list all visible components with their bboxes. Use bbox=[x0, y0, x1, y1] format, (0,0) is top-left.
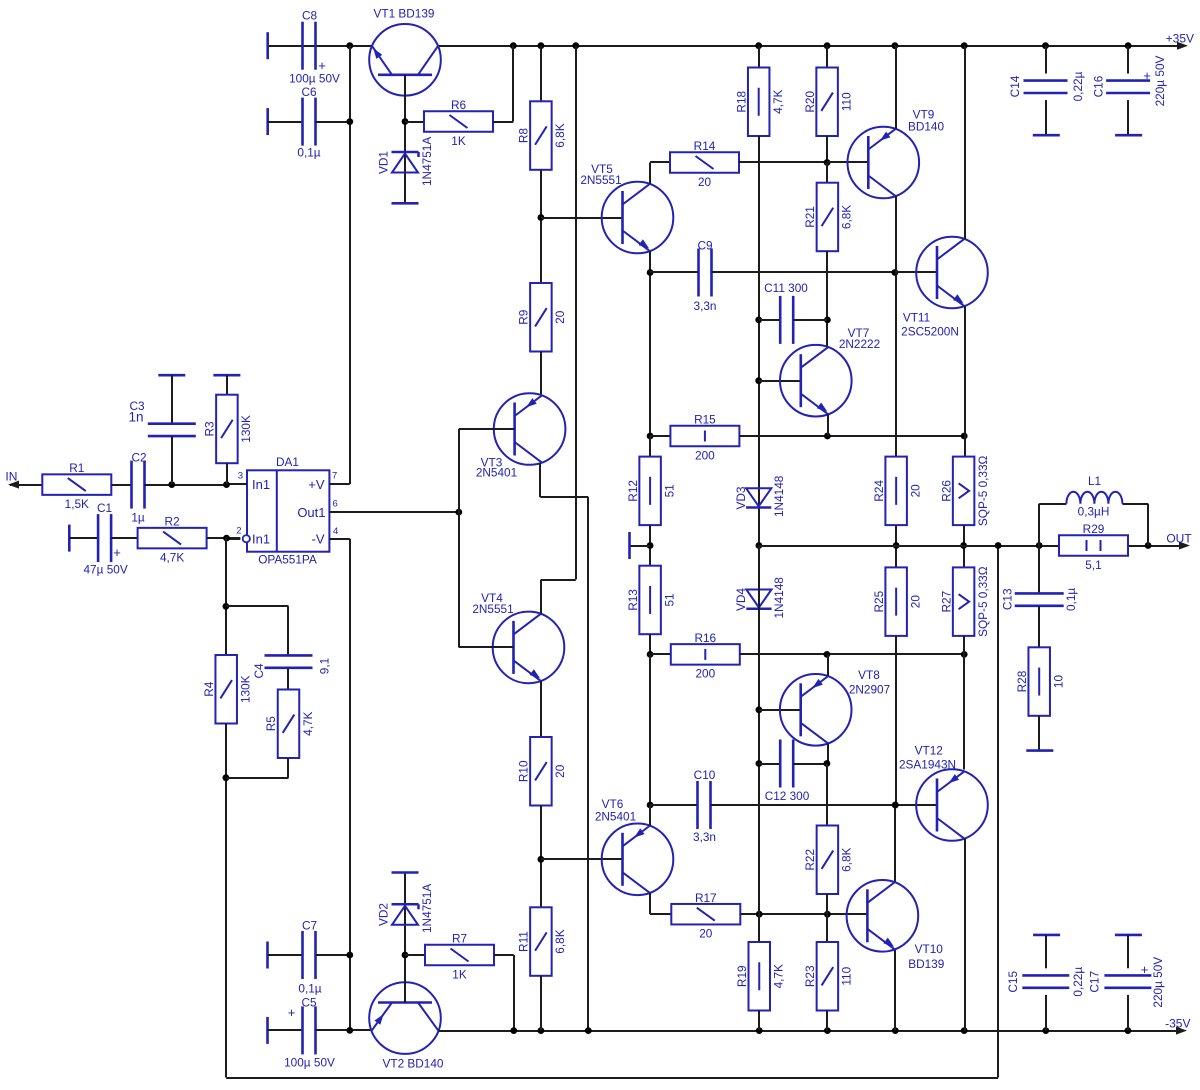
svg-text:R21: R21 bbox=[803, 206, 817, 228]
wire VT9 collector bbox=[895, 196, 897, 456]
svg-text:R5: R5 bbox=[264, 716, 278, 732]
svg-text:R13: R13 bbox=[626, 589, 640, 611]
wire pin6 Out1 bbox=[329, 511, 458, 513]
svg-text:220µ 50V: 220µ 50V bbox=[1153, 55, 1167, 106]
resistor R11 6,8K bbox=[530, 907, 552, 976]
capacitor C5 100u 50V bbox=[266, 1017, 269, 1044]
svg-text:C1: C1 bbox=[97, 501, 112, 515]
junction R14/R20/R21 bbox=[824, 159, 831, 166]
svg-text:6,8K: 6,8K bbox=[553, 123, 567, 147]
junction top rail x895 bbox=[892, 42, 899, 49]
wire R23 bottom bbox=[826, 1011, 828, 1031]
junction VT8 emitter bbox=[824, 651, 831, 658]
svg-text:SQP-5 0,33Ω: SQP-5 0,33Ω bbox=[976, 455, 990, 526]
junction bottom rail x964 bbox=[961, 1027, 968, 1034]
capacitor C6 0,1u bbox=[266, 108, 269, 135]
svg-text:R16: R16 bbox=[694, 631, 716, 645]
junction VT7 base bbox=[755, 377, 762, 384]
svg-text:IN: IN bbox=[5, 469, 17, 483]
resistor R26 SQP-5 0,33 bbox=[953, 457, 975, 525]
wire VT5 collector bbox=[649, 163, 651, 184]
svg-text:C8: C8 bbox=[302, 9, 318, 23]
svg-text:VT12: VT12 bbox=[915, 744, 943, 758]
svg-text:VT1 BD139: VT1 BD139 bbox=[374, 7, 435, 21]
svg-text:C17: C17 bbox=[1088, 971, 1102, 993]
junction VT5 emitter / C9 bbox=[647, 269, 654, 276]
svg-text:20: 20 bbox=[698, 175, 712, 189]
junction top rail x575 bbox=[572, 42, 579, 49]
svg-text:2: 2 bbox=[236, 526, 241, 537]
svg-text:R9: R9 bbox=[517, 310, 531, 325]
wire rail to R18 bbox=[758, 46, 760, 68]
junction R27 bottom bbox=[961, 651, 968, 658]
capacitor C17 220u 50V bbox=[1115, 934, 1142, 937]
svg-text:1N4751A: 1N4751A bbox=[420, 884, 434, 933]
svg-text:0,1µ: 0,1µ bbox=[298, 982, 321, 996]
svg-text:R22: R22 bbox=[803, 849, 817, 871]
svg-text:6,8K: 6,8K bbox=[840, 847, 854, 871]
wire VT11 collector to rail bbox=[964, 46, 966, 239]
junction bottom rail x827 bbox=[824, 1027, 831, 1034]
svg-text:1µ: 1µ bbox=[131, 511, 145, 525]
svg-text:0,1µ: 0,1µ bbox=[1064, 588, 1078, 611]
resistor R21 6,8K bbox=[826, 163, 828, 183]
svg-text:VT10: VT10 bbox=[915, 942, 944, 956]
svg-text:R7: R7 bbox=[452, 932, 467, 946]
svg-text:C10: C10 bbox=[694, 768, 716, 782]
junction C10 right bbox=[892, 802, 899, 809]
wire R18 down bbox=[758, 136, 760, 546]
svg-text:2SC5200N: 2SC5200N bbox=[901, 325, 959, 339]
svg-text:R23: R23 bbox=[803, 965, 817, 987]
svg-text:2N5401: 2N5401 bbox=[595, 810, 636, 824]
svg-text:4,7K: 4,7K bbox=[301, 711, 315, 735]
junction bottom rail x541 bbox=[538, 1027, 545, 1034]
resistor R7 1K bbox=[405, 954, 425, 956]
transistor VT9 BD140 bbox=[827, 161, 868, 163]
transistor VT1 BD139 bbox=[369, 24, 441, 96]
resistor R17 20 bbox=[671, 904, 740, 925]
wire midpoint to ground bbox=[631, 545, 651, 547]
svg-text:1N4751A: 1N4751A bbox=[420, 137, 434, 186]
svg-text:20: 20 bbox=[553, 764, 567, 778]
svg-text:VT11: VT11 bbox=[903, 311, 930, 325]
svg-text:VT2 BD140: VT2 BD140 bbox=[383, 1057, 444, 1071]
wire pin3 bbox=[227, 483, 248, 485]
junction VT7 emitter bbox=[824, 433, 831, 440]
capacitor C10 3,3n bbox=[650, 804, 697, 806]
capacitor C2 1u bbox=[130, 461, 133, 509]
svg-text:0,22µ: 0,22µ bbox=[1071, 967, 1085, 997]
junction C12 left bbox=[756, 760, 763, 767]
wire R22 bottom bbox=[826, 894, 828, 914]
wire R26 to output rail bbox=[963, 525, 965, 567]
wire VT10 collector bbox=[894, 805, 896, 882]
svg-text:C6: C6 bbox=[301, 85, 317, 99]
svg-text:VD4: VD4 bbox=[734, 588, 748, 611]
svg-text:OUT: OUT bbox=[1166, 532, 1192, 546]
wire to VT6 emitter bbox=[649, 654, 651, 825]
svg-text:R26: R26 bbox=[939, 480, 953, 502]
svg-text:C13: C13 bbox=[1001, 588, 1015, 610]
net output rail bbox=[759, 545, 1059, 547]
svg-text:C5: C5 bbox=[301, 996, 317, 1010]
resistor R22 6,8K bbox=[826, 764, 828, 826]
svg-text:+: + bbox=[288, 1005, 296, 1020]
svg-text:C15: C15 bbox=[1006, 971, 1020, 993]
transistor VT3 2N5401 bbox=[494, 393, 566, 465]
wire rail to R20 bbox=[826, 46, 828, 68]
resistor R24 20 bbox=[885, 457, 907, 525]
resistor R29 5,1 bbox=[1059, 535, 1128, 556]
junction top rail x759 bbox=[755, 42, 762, 49]
wire R7 to bottom rail bbox=[494, 954, 514, 956]
svg-text:1,5K: 1,5K bbox=[65, 497, 89, 511]
resistor R28 10 bbox=[1028, 647, 1050, 716]
capacitor C12 300 bbox=[759, 763, 780, 765]
wire to VT12 emitter bbox=[963, 654, 965, 769]
junction C6 bbox=[346, 118, 353, 125]
svg-text:0,1µ: 0,1µ bbox=[297, 146, 320, 160]
svg-text:R10: R10 bbox=[517, 760, 531, 782]
svg-text:10: 10 bbox=[1052, 675, 1066, 689]
svg-text:R27: R27 bbox=[939, 591, 953, 613]
junction top rail x350 bbox=[346, 42, 353, 49]
junction output rail R24/R25 bbox=[893, 542, 900, 549]
junction bottom rail x759 bbox=[756, 1027, 763, 1034]
svg-text:-35V: -35V bbox=[1165, 1017, 1190, 1031]
svg-text:20: 20 bbox=[699, 926, 713, 940]
wire VT12 collector bbox=[964, 839, 966, 1031]
svg-text:1n: 1n bbox=[128, 410, 143, 425]
resistor R6 1K bbox=[405, 121, 424, 123]
svg-text:3,3n: 3,3n bbox=[693, 830, 716, 844]
capacitor C4 9,1 bbox=[226, 605, 289, 607]
op-amp DA1 OPA551PA bbox=[247, 470, 329, 551]
diode VD3 1N4148 bbox=[746, 488, 771, 506]
junction C5 bbox=[346, 1027, 353, 1034]
svg-text:0,22µ: 0,22µ bbox=[1071, 71, 1085, 101]
junction top rail x827 bbox=[824, 42, 831, 49]
resistor R19 4,7K bbox=[758, 914, 760, 942]
junction top rail x1128 bbox=[1125, 42, 1132, 49]
transistor VT4 2N5551 bbox=[493, 612, 565, 684]
svg-text:1N4148: 1N4148 bbox=[772, 577, 786, 619]
svg-text:R29: R29 bbox=[1083, 522, 1105, 536]
junction VT12 base node bbox=[892, 802, 899, 809]
svg-text:200: 200 bbox=[695, 448, 715, 462]
svg-text:SQP-5 0,33Ω: SQP-5 0,33Ω bbox=[976, 566, 990, 637]
wire R14 to R20/R21 node bbox=[739, 161, 827, 163]
wire R4 bottom bbox=[225, 724, 227, 1078]
wire R6 to rail bbox=[493, 121, 513, 123]
svg-text:100µ 50V: 100µ 50V bbox=[289, 72, 340, 86]
svg-text:R28: R28 bbox=[1015, 670, 1029, 692]
junction VT1 base / R6 bbox=[402, 118, 409, 125]
wire pin2 node down bbox=[225, 538, 227, 655]
svg-text:BD139: BD139 bbox=[908, 957, 944, 971]
wire pin7 +V bbox=[329, 483, 349, 485]
wire R27 bottom bbox=[963, 636, 965, 655]
junction L1 left bbox=[1036, 542, 1043, 549]
svg-text:100µ 50V: 100µ 50V bbox=[284, 1056, 335, 1070]
capacitor C16 220u 50V bbox=[1127, 46, 1129, 74]
wire R3 to pin3 node bbox=[226, 463, 228, 484]
wire VT6 base bbox=[541, 858, 623, 860]
wire VT11 emitter bbox=[964, 306, 966, 456]
svg-text:R24: R24 bbox=[872, 480, 886, 502]
wire VD4 down bbox=[758, 546, 760, 943]
transistor VT2 BD140 bbox=[369, 982, 441, 1054]
ground R12/R13 bbox=[628, 532, 631, 559]
diode VD4 1N4148 bbox=[746, 590, 771, 608]
wire pin4 -V bbox=[329, 538, 349, 540]
wire rail to R8 bbox=[540, 46, 542, 102]
resistor R2 4,7K bbox=[138, 528, 207, 549]
junction R4 bottom bbox=[223, 774, 230, 781]
svg-text:+V: +V bbox=[308, 477, 325, 492]
junction R4 top / C4 branch bbox=[223, 603, 230, 610]
resistor R12 51 bbox=[649, 436, 651, 457]
svg-text:R20: R20 bbox=[803, 90, 817, 112]
wire R15 to VT7 emitter node bbox=[739, 435, 964, 437]
svg-text:2N2907: 2N2907 bbox=[849, 683, 890, 697]
svg-text:R6: R6 bbox=[451, 98, 467, 112]
svg-text:2N5551: 2N5551 bbox=[580, 173, 621, 187]
junction C7 bbox=[346, 952, 353, 959]
svg-text:BD140: BD140 bbox=[908, 120, 945, 134]
svg-text:VD3: VD3 bbox=[734, 486, 748, 509]
svg-text:R8: R8 bbox=[517, 128, 531, 144]
junction C10 left bbox=[647, 802, 654, 809]
resistor R5 4,7K bbox=[278, 690, 300, 759]
svg-text:VD1: VD1 bbox=[377, 151, 391, 174]
wire C8 column bbox=[349, 46, 351, 484]
svg-text:220µ 50V: 220µ 50V bbox=[1151, 957, 1165, 1008]
svg-text:110: 110 bbox=[840, 966, 854, 985]
svg-text:1K: 1K bbox=[451, 134, 466, 148]
junction Out1 bbox=[455, 509, 462, 516]
svg-text:C4: C4 bbox=[252, 663, 266, 679]
resistor R4 130K bbox=[215, 655, 237, 724]
svg-text:R18: R18 bbox=[735, 90, 749, 112]
resistor R16 200 bbox=[650, 653, 671, 655]
svg-text:C11 300: C11 300 bbox=[764, 281, 808, 295]
zener diode VD1 1N4751A bbox=[392, 151, 419, 154]
junction VT6 base bbox=[538, 856, 545, 863]
svg-text:C2: C2 bbox=[131, 451, 146, 465]
svg-text:In1: In1 bbox=[252, 532, 270, 547]
svg-text:+35V: +35V bbox=[1166, 31, 1194, 45]
svg-text:-V: -V bbox=[312, 532, 325, 547]
junction C9 / VT9 collector bbox=[892, 269, 899, 276]
wire C2 to node bbox=[145, 484, 227, 486]
svg-text:C7: C7 bbox=[302, 919, 317, 933]
svg-text:R2: R2 bbox=[165, 515, 180, 529]
svg-text:6,8K: 6,8K bbox=[553, 929, 567, 953]
junction R12/R13 midpoint bbox=[647, 542, 654, 549]
svg-text:2N5551: 2N5551 bbox=[472, 602, 513, 616]
svg-text:200: 200 bbox=[695, 667, 715, 681]
net +35V top rail bbox=[268, 45, 372, 47]
svg-text:20: 20 bbox=[908, 484, 922, 498]
transistor VT12 2SA1943N bbox=[895, 804, 937, 806]
resistor R8 6,8K bbox=[530, 101, 552, 170]
svg-text:3,3n: 3,3n bbox=[694, 299, 717, 313]
junction bottom rail x1046 bbox=[1042, 1027, 1049, 1034]
svg-text:VT8: VT8 bbox=[858, 668, 880, 682]
junction R15 left bbox=[647, 433, 654, 440]
svg-text:DA1: DA1 bbox=[276, 455, 299, 469]
svg-text:1K: 1K bbox=[452, 967, 467, 981]
svg-text:+: + bbox=[1141, 962, 1149, 977]
svg-text:OPA551PA: OPA551PA bbox=[258, 553, 317, 567]
capacitor C3 1n bbox=[158, 374, 185, 377]
resistor R23 110 bbox=[826, 914, 828, 942]
junction R16 left bbox=[647, 651, 654, 658]
svg-text:7: 7 bbox=[332, 471, 337, 482]
wire R17 to VT10 base bbox=[740, 913, 867, 915]
junction top rail x513 bbox=[510, 42, 517, 49]
svg-text:R15: R15 bbox=[694, 413, 716, 427]
junction pin3 node bbox=[223, 481, 230, 488]
wire VT1 base bbox=[404, 75, 406, 204]
wire R28 to ground bbox=[1038, 716, 1040, 751]
wire R12 bottom bbox=[649, 525, 651, 566]
svg-text:R3: R3 bbox=[203, 421, 217, 437]
resistor R13 51 bbox=[639, 566, 661, 635]
junction bottom rail x588 bbox=[585, 1027, 592, 1034]
svg-text:2N5401: 2N5401 bbox=[476, 466, 517, 480]
svg-text:4: 4 bbox=[333, 526, 338, 537]
junction C11 right bbox=[824, 317, 831, 324]
resistor R25 20 bbox=[885, 567, 907, 636]
svg-text:C12 300: C12 300 bbox=[765, 789, 810, 803]
wire R13 to R16 node bbox=[649, 634, 651, 654]
transistor VT6 2N5401 bbox=[602, 824, 674, 896]
wire VT4 emitter bbox=[540, 681, 542, 737]
junction top rail x964 bbox=[961, 42, 968, 49]
wire VT6 collector bbox=[649, 893, 651, 914]
transistor VT11 2SC5200N bbox=[895, 271, 937, 273]
wire R10 to VT6 base node bbox=[540, 806, 542, 908]
svg-text:110: 110 bbox=[839, 92, 853, 111]
wire VT2 base bbox=[404, 873, 406, 1003]
svg-text:R12: R12 bbox=[626, 480, 640, 502]
wire pin2 bbox=[227, 538, 241, 540]
wire VT5 emitter bbox=[649, 251, 651, 436]
svg-text:20: 20 bbox=[553, 310, 567, 324]
wire VT10 emitter bbox=[894, 950, 896, 1031]
wire VT6 emitter bbox=[649, 805, 651, 826]
svg-text:6,8K: 6,8K bbox=[840, 205, 854, 229]
wire R16 to VT8 emitter node bbox=[740, 653, 964, 655]
svg-text:1N4148: 1N4148 bbox=[772, 475, 786, 517]
wire feedback bottom bbox=[226, 1077, 998, 1079]
resistor R14 20 bbox=[670, 152, 739, 173]
svg-text:51: 51 bbox=[662, 484, 676, 497]
junction C11 left bbox=[755, 317, 762, 324]
svg-text:20: 20 bbox=[908, 595, 922, 609]
capacitor C9 3,3n bbox=[650, 271, 698, 273]
wire R1 to C2 bbox=[111, 484, 131, 486]
junction VT2 base / R7 bbox=[402, 952, 409, 959]
junction bottom rail x513 bbox=[510, 1027, 517, 1034]
svg-text:R1: R1 bbox=[69, 461, 84, 475]
junction feedback tap bbox=[995, 542, 1002, 549]
svg-text:130K: 130K bbox=[239, 415, 253, 443]
svg-text:51: 51 bbox=[662, 593, 676, 606]
wire VT4 collector to +35V bbox=[540, 580, 542, 614]
svg-text:2N2222: 2N2222 bbox=[839, 337, 880, 351]
svg-text:L1: L1 bbox=[1088, 474, 1101, 488]
resistor R1 1,5K bbox=[42, 474, 111, 495]
transistor VT8 2N2907 bbox=[759, 709, 801, 711]
svg-text:C9: C9 bbox=[697, 239, 712, 253]
junction bottom rail x1128 bbox=[1125, 1027, 1132, 1034]
wire VT5 base bbox=[541, 217, 623, 219]
svg-text:9,1: 9,1 bbox=[318, 658, 332, 674]
capacitor C8 100u 50V bbox=[266, 32, 269, 59]
wire R21 to C11 node bbox=[826, 251, 828, 347]
svg-text:2SA1943N: 2SA1943N bbox=[899, 757, 956, 771]
junction output rail R26/R27 bbox=[960, 542, 967, 549]
capacitor C14 0,22u bbox=[1045, 46, 1047, 74]
inductor L1 0,3uH bbox=[1038, 504, 1040, 546]
svg-text:47µ 50V: 47µ 50V bbox=[84, 563, 128, 577]
svg-text:4,7K: 4,7K bbox=[160, 550, 184, 564]
capacitor C13 0,1u bbox=[1038, 546, 1040, 594]
resistor R20 110 bbox=[816, 68, 838, 137]
svg-text:+: + bbox=[1143, 68, 1151, 83]
zener diode VD2 1N4751A bbox=[392, 871, 419, 874]
junction VT8 base bbox=[756, 706, 763, 713]
junction R19 top bbox=[756, 911, 763, 918]
resistor R27 SQP-5 0,33 bbox=[953, 567, 975, 636]
wire R2 to pin2 bbox=[207, 537, 241, 539]
wire VT3 collector bbox=[539, 463, 541, 497]
wire R19 bottom bbox=[758, 1011, 760, 1031]
svg-text:R25: R25 bbox=[872, 590, 886, 612]
transistor VT10 BD139 bbox=[847, 880, 919, 952]
resistor R10 20 bbox=[530, 737, 552, 806]
junction R22/R23 bbox=[824, 911, 831, 918]
wire R8 to VT5 base node bbox=[540, 170, 542, 283]
svg-text:R11: R11 bbox=[517, 931, 531, 952]
svg-text:4,7K: 4,7K bbox=[771, 89, 785, 113]
svg-text:+: + bbox=[113, 545, 121, 560]
svg-text:R19: R19 bbox=[735, 965, 749, 987]
wire VT8 emitter bbox=[827, 654, 829, 676]
junction bottom rail x895 bbox=[892, 1027, 899, 1034]
svg-text:6: 6 bbox=[333, 499, 338, 510]
junction output rail VD node bbox=[756, 542, 763, 549]
net -35V bottom rail bbox=[439, 1030, 1180, 1032]
wire R11 bottom bbox=[540, 976, 542, 1031]
svg-text:R17: R17 bbox=[695, 891, 717, 905]
wire R9 to VT3 emitter bbox=[540, 352, 542, 395]
wire VT9 emitter to rail bbox=[895, 46, 897, 129]
capacitor C7 0,1u bbox=[266, 942, 269, 969]
wire R5 bottom bbox=[287, 758, 289, 778]
resistor R9 20 bbox=[530, 283, 552, 352]
wire VT4 base bbox=[459, 646, 514, 648]
transistor VT7 2N2222 bbox=[759, 380, 801, 382]
junction pin2 node bbox=[223, 535, 230, 542]
svg-text:3: 3 bbox=[238, 471, 243, 482]
junction top rail x1045 bbox=[1042, 42, 1049, 49]
junction top rail x541 bbox=[538, 42, 545, 49]
